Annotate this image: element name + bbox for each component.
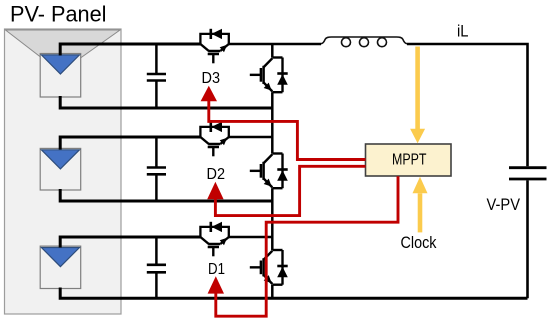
- wire chain mid 2: [271, 188, 274, 250]
- capacitor C3 bottom plate: [147, 271, 166, 274]
- IGBT Q1 collector slant: [264, 251, 273, 260]
- IGBT Q2 bottom bar: [272, 187, 282, 189]
- wire chain mid 1: [271, 92, 274, 153]
- IGBT Q2 gate bar: [260, 164, 263, 178]
- capacitor C1 bottom plate: [147, 79, 166, 82]
- MPPT block: [366, 144, 452, 176]
- IGBT Q3 top bar: [272, 56, 282, 58]
- IGBT Q3 gate bar: [260, 68, 263, 82]
- capacitor C2 top plate: [147, 166, 166, 169]
- IGBT S1 body bar: [208, 243, 220, 246]
- yellow arrow clock line: [418, 193, 423, 232]
- capacitor C2 bottom plate: [147, 173, 166, 176]
- svg-text:iL: iL: [457, 21, 469, 40]
- PV panel body: [5, 29, 122, 314]
- IGBT S1 collector slant: [200, 237, 208, 244]
- IGBT Q3 gate lead: [250, 74, 260, 76]
- IGBT Q1 diode cathode bar: [277, 265, 287, 268]
- IGBT Q3 diode cathode bar: [277, 72, 287, 75]
- red arrowhead D2: [207, 182, 223, 199]
- IGBT Q2 top bar: [272, 152, 282, 154]
- wire chain top drop: [271, 44, 274, 58]
- IGBT S1 emitter arrowhead: [220, 238, 228, 245]
- wire chain bottom drop: [271, 285, 274, 299]
- IGBT S3 emitter arrowhead: [220, 45, 228, 52]
- wire rail 1 inductor to right edge: [407, 44, 528, 166]
- IGBT S2 gate bar: [208, 146, 219, 149]
- IGBT Q3 emitter arrowhead: [264, 83, 272, 91]
- red arrowhead D3: [201, 86, 217, 101]
- wire PV1 bottom rail: [60, 96, 272, 108]
- svg-text:Clock: Clock: [401, 233, 437, 252]
- capacitor C1 lead bottom: [155, 81, 158, 109]
- IGBT Q1 top bar: [272, 249, 282, 251]
- IGBT S3 emitter slant: [220, 44, 229, 51]
- IGBT S1 diode triangle: [212, 222, 223, 232]
- IGBT S1 gate bar: [208, 246, 219, 249]
- svg-text:D3: D3: [202, 70, 221, 87]
- IGBT S3 diode cathode bar: [210, 29, 213, 39]
- IGBT S3 diode triangle: [212, 29, 223, 39]
- capacitor C1 top plate: [147, 73, 166, 76]
- IGBT Q1 diode branch wire: [281, 250, 283, 285]
- svg-text:V-PV: V-PV: [487, 195, 521, 214]
- IGBT Q3 collector slant: [264, 58, 273, 67]
- capacitor C3 top plate: [147, 263, 166, 266]
- wire PV2 top rail: [60, 137, 200, 150]
- inductor loop 3: [378, 38, 387, 47]
- IGBT Q1 gate lead: [250, 266, 260, 268]
- IGBT S1 gate lead: [212, 247, 214, 256]
- wire right vertical bottom: [526, 180, 529, 298]
- IGBT Q2 diode cathode bar: [277, 168, 287, 171]
- IGBT Q2 body bar: [262, 162, 265, 180]
- yellow arrowhead into MPPT bottom: [413, 177, 428, 194]
- IGBT S2 body bar: [208, 143, 220, 146]
- IGBT Q3 body bar: [262, 66, 265, 84]
- IGBT S1 emitter slant: [220, 237, 229, 244]
- IGBT Q3 emitter slant: [264, 83, 273, 92]
- PV cell 1 blue triangle: [41, 55, 79, 74]
- capacitor C1 lead top: [155, 44, 158, 74]
- capacitor C-out bottom plate: [509, 178, 547, 181]
- PV panel top facet triangle: [6, 30, 121, 72]
- IGBT Q3 diode triangle: [277, 74, 288, 85]
- IGBT S2 emitter arrowhead: [220, 138, 228, 145]
- capacitor C3 lead bottom: [155, 272, 158, 298]
- wire PV3 top rail: [60, 237, 200, 248]
- IGBT Q2 gate lead: [250, 170, 260, 172]
- IGBT S2 gate lead: [212, 147, 214, 156]
- inductor loop 2: [360, 38, 369, 47]
- PV cell 2 blue triangle: [41, 150, 79, 169]
- capacitor C-out top plate: [509, 166, 547, 169]
- IGBT Q1 body bar: [262, 258, 265, 276]
- IGBT S1 anti-parallel diode loop: [200, 227, 228, 237]
- IGBT Q1 diode triangle: [277, 267, 288, 278]
- IGBT S3 body bar: [208, 50, 220, 53]
- IGBT S2 collector slant: [200, 137, 208, 144]
- IGBT Q3 diode branch wire: [281, 58, 283, 93]
- svg-text:PV- Panel: PV- Panel: [10, 2, 107, 27]
- yellow arrowhead into MPPT top: [410, 129, 425, 144]
- svg-text:D1: D1: [208, 261, 225, 278]
- IGBT Q2 diode branch wire: [281, 154, 283, 189]
- IGBT S1 diode cathode bar: [210, 222, 213, 232]
- IGBT Q2 diode triangle: [277, 170, 288, 181]
- svg-text:MPPT: MPPT: [392, 152, 427, 169]
- IGBT Q1 gate bar: [260, 261, 263, 275]
- IGBT Q1 bottom bar: [272, 284, 282, 286]
- red wire MPPT to D2: [215, 166, 365, 215]
- svg-text:D2: D2: [207, 166, 226, 183]
- inductor L: [321, 37, 407, 44]
- IGBT S3 collector slant: [200, 44, 208, 51]
- red wire MPPT to D1: [216, 176, 398, 316]
- IGBT Q2 emitter slant: [264, 179, 273, 188]
- wire PV3 bottom to output rail: [60, 288, 527, 299]
- red arrowhead D1: [208, 276, 224, 293]
- IGBT S2 anti-parallel diode loop: [200, 127, 228, 137]
- capacitor C2 lead top: [155, 137, 158, 168]
- IGBT S3 anti-parallel diode loop: [200, 34, 228, 44]
- IGBT S3 gate lead: [212, 54, 214, 63]
- PV cell 3 body: [40, 246, 80, 288]
- IGBT Q1 emitter arrowhead: [264, 275, 272, 283]
- wire PV2 bottom rail: [60, 189, 272, 201]
- wire PV1 top to rail 1: [60, 44, 200, 56]
- wire rail 1 from switch to inductor: [229, 43, 321, 46]
- red wire MPPT to D3: [209, 101, 366, 160]
- IGBT Q1 emitter slant: [264, 275, 273, 284]
- PV cell 1 body: [40, 54, 80, 98]
- PV cell 3 blue triangle: [41, 248, 79, 267]
- IGBT Q2 collector slant: [264, 154, 273, 163]
- capacitor C2 lead bottom: [155, 174, 158, 201]
- IGBT S3 gate bar: [208, 53, 219, 56]
- inductor loop 1: [342, 38, 351, 47]
- yellow arrow iL sense line: [415, 47, 420, 130]
- IGBT Q2 emitter arrowhead: [264, 179, 272, 187]
- IGBT Q3 bottom bar: [272, 91, 282, 93]
- PV cell 2 body: [40, 148, 80, 190]
- wire rail 2 right segment: [229, 136, 272, 139]
- IGBT S2 diode triangle: [212, 122, 223, 132]
- IGBT S2 diode cathode bar: [210, 122, 213, 132]
- IGBT S2 emitter slant: [220, 137, 229, 144]
- capacitor C3 lead top: [155, 237, 158, 265]
- wire rail 3 right segment: [229, 236, 272, 239]
